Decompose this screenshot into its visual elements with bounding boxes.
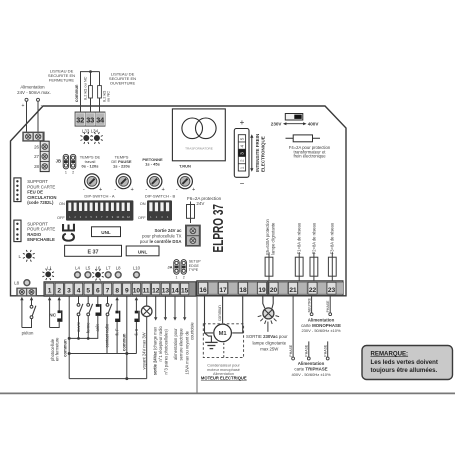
svg-text:27: 27	[34, 154, 39, 159]
LED L33	[80, 132, 92, 144]
wire NC bottom	[50, 322, 60, 328]
svg-text:commun: commun	[74, 84, 79, 102]
junction dots terminal 3	[68, 337, 71, 355]
label support feu de circulation	[27, 179, 56, 205]
svg-text:UNL: UNL	[138, 249, 148, 254]
svg-text:arêt: arêt	[95, 324, 100, 332]
label condensateur moteur	[201, 363, 247, 380]
svg-text:3: 3	[240, 152, 245, 155]
label 15VA max courtoisie	[184, 322, 194, 375]
svg-text:MOTEUR ELECTRIQUE: MOTEUR ELECTRIQUE	[201, 376, 247, 381]
DIP switch B	[138, 194, 176, 221]
svg-text:8,2 kΩ ou NC: 8,2 kΩ ou NC	[83, 76, 88, 100]
label listeau de securite en ouverture	[109, 71, 136, 85]
svg-text:ferme: ferme	[86, 322, 91, 333]
svg-text:13: 13	[162, 288, 170, 295]
label F4	[289, 145, 331, 159]
svg-text:L8: L8	[14, 281, 19, 286]
svg-text:8: 8	[115, 288, 119, 295]
wire 24V -	[37, 101, 39, 131]
svg-text:OFF: OFF	[57, 215, 65, 220]
connector support feu de circulation	[14, 178, 21, 202]
svg-text:lampe clignotante: lampe clignotante	[252, 340, 286, 345]
wire pieton bottom	[22, 319, 32, 328]
labels 26 27 28	[34, 144, 39, 169]
LED L2	[18, 250, 34, 262]
svg-text:(code 7282L): (code 7282L)	[27, 200, 54, 205]
terminal block alimentation 24V	[22, 132, 44, 142]
svg-text:Alimentation: Alimentation	[20, 84, 45, 89]
svg-text:9: 9	[125, 288, 129, 295]
svg-text:frein électronique: frein électronique	[293, 154, 326, 159]
svg-text:11: 11	[143, 288, 150, 295]
svg-text:Sortie 24V ac: Sortie 24V ac	[155, 228, 183, 233]
svg-text:1: 1	[48, 288, 52, 295]
transformer	[172, 109, 225, 161]
svg-text:ELPRO 37: ELPRO 37	[211, 204, 227, 253]
svg-text:n°1 récepteur radio: n°1 récepteur radio	[158, 326, 163, 362]
label F5	[265, 218, 276, 254]
svg-text:F1=8A de réseau: F1=8A de réseau	[297, 223, 302, 254]
svg-text:DIP-SWITCH - A: DIP-SWITCH - A	[84, 194, 114, 199]
svg-text:-: -	[145, 187, 147, 193]
svg-text:L4: L4	[75, 265, 80, 270]
svg-text:ou NC: ou NC	[106, 91, 111, 102]
svg-text:Alimentation: Alimentation	[298, 361, 325, 366]
svg-text:REMARQUE:: REMARQUE:	[371, 350, 409, 357]
fuse F2 8A	[310, 252, 318, 281]
svg-text:OFF: OFF	[138, 215, 146, 220]
wire terminal 9 commun	[126, 296, 128, 378]
svg-text:TRASFORMATORE: TRASFORMATORE	[185, 147, 213, 151]
svg-text:voyant 24V max 3W: voyant 24V max 3W	[142, 332, 147, 369]
label sortie 24Vac	[153, 326, 169, 376]
svg-text:max 25W: max 25W	[260, 347, 279, 352]
svg-text:lampe clignotante: lampe clignotante	[271, 222, 276, 255]
svg-text:Alimentation: Alimentation	[308, 318, 335, 323]
svg-text:NC: NC	[49, 313, 57, 319]
svg-text:10: 10	[133, 288, 141, 295]
label sortie 230Vac	[246, 334, 288, 351]
svg-text:14: 14	[171, 288, 179, 295]
wire terminal 20	[272, 296, 273, 308]
svg-text:28: 28	[34, 164, 39, 169]
label alimentation triphase	[291, 361, 331, 377]
svg-text:3: 3	[67, 288, 71, 295]
wire terminal 13	[164, 296, 166, 317]
wire terminal 21 phase	[292, 296, 295, 360]
svg-text:Les leds vertes doivent: Les leds vertes doivent	[371, 359, 438, 366]
node + terminal	[22, 98, 28, 109]
fuse F1 8A	[295, 252, 303, 281]
switch contact radio (terminal 7)	[107, 296, 109, 303]
svg-text:NEUTRE: NEUTRE	[307, 297, 311, 312]
svg-text:15VA max ou voyant de: 15VA max ou voyant de	[184, 330, 189, 374]
svg-text:TYPE: TYPE	[189, 268, 199, 272]
wire terminal 12 sortie 24Vac	[155, 296, 157, 317]
fuse F4 2A	[286, 135, 321, 142]
svg-text:fi. 0: fi. 0	[134, 328, 139, 335]
svg-text:commun: commun	[62, 339, 67, 357]
svg-text:24V - 50mA max.: 24V - 50mA max.	[17, 90, 51, 95]
switch ferme (terminal 5)	[87, 296, 89, 303]
svg-text:4: 4	[240, 144, 245, 147]
contact NC photocellule	[57, 310, 62, 321]
svg-text:pour photocellule TX: pour photocellule TX	[142, 234, 181, 239]
svg-text:SORTIE 230Vac pour: SORTIE 230Vac pour	[246, 334, 288, 339]
svg-text:PHASE: PHASE	[289, 344, 293, 357]
junction dot	[89, 70, 92, 73]
svg-text:26: 26	[34, 144, 39, 149]
bottom rule	[0, 392, 455, 394]
svg-text:L8: L8	[116, 265, 121, 270]
svg-text:serrure électrique: serrure électrique	[179, 328, 184, 361]
connector intensite frein electronique	[234, 129, 249, 178]
svg-text:19: 19	[258, 287, 266, 294]
svg-text:+: +	[22, 103, 25, 109]
svg-text:5: 5	[86, 288, 90, 295]
wire terminal 23 phase	[329, 296, 332, 316]
wire terminal 14 serrure	[174, 296, 176, 317]
svg-text:16: 16	[199, 287, 207, 294]
wire terminal 2	[58, 297, 61, 300]
wire bus radio/fi	[69, 353, 136, 355]
svg-text:23: 23	[328, 287, 336, 294]
svg-text:L7: L7	[106, 265, 111, 270]
remarque box	[362, 346, 453, 380]
motor M1	[214, 324, 232, 342]
fuse F3 8A	[328, 252, 336, 281]
potentiometer pietonne	[142, 157, 163, 167]
LED row L4-L10	[75, 265, 141, 280]
svg-text:F2=8A de réseau: F2=8A de réseau	[311, 223, 316, 254]
dashed condenser box	[203, 324, 243, 358]
connector support radio enfichable	[14, 220, 21, 242]
svg-text:sortie 24Vac (charge max: sortie 24Vac (charge max	[153, 326, 158, 375]
wire terminal 15 courtoisie	[184, 296, 186, 317]
svg-text:alimentation pour: alimentation pour	[173, 328, 178, 360]
svg-text:PHASE: PHASE	[324, 344, 328, 357]
svg-text:230V: 230V	[271, 121, 283, 126]
wire bus ouvre/ferme/arret	[69, 337, 98, 339]
svg-text:n°3 paires photocellules): n°3 paires photocellules)	[164, 328, 169, 374]
svg-text:UNL: UNL	[101, 230, 111, 235]
svg-text:PHASE: PHASE	[326, 300, 330, 313]
svg-text:INTENSITE FREIN: INTENSITE FREIN	[255, 134, 260, 172]
svg-text:230V - 50/60Hz ±10%: 230V - 50/60Hz ±10%	[301, 328, 341, 333]
label support radio enfichable	[27, 221, 55, 242]
svg-text:CE: CE	[59, 223, 79, 242]
svg-text:400V - 50/60Hz ±10%: 400V - 50/60Hz ±10%	[291, 372, 331, 377]
svg-text:OUVERTURE: OUVERTURE	[110, 80, 136, 85]
wire terminal 18 to motor	[232, 296, 243, 333]
ground	[205, 333, 218, 349]
svg-text:en fermeture: en fermeture	[54, 337, 59, 361]
svg-text:24V: 24V	[196, 201, 204, 206]
DIP switch A	[57, 194, 133, 221]
label intensite frein electronique	[255, 134, 266, 172]
svg-text:5: 5	[240, 137, 245, 140]
board outline ELPRO 37 PCB	[11, 106, 347, 296]
svg-text:-: -	[83, 187, 85, 193]
svg-text:1s - 220s: 1s - 220s	[113, 164, 131, 169]
wire terminal 19	[263, 296, 265, 308]
svg-text:+: +	[240, 118, 245, 127]
svg-text:12: 12	[152, 288, 160, 295]
dashed capacitor wire	[223, 343, 225, 358]
svg-text:34: 34	[96, 115, 104, 124]
svg-text:piéton: piéton	[22, 330, 34, 335]
box UNL 2	[126, 246, 159, 256]
svg-text:2: 2	[72, 171, 74, 175]
box E 37	[65, 245, 122, 256]
svg-text:−: −	[240, 179, 245, 188]
wire pieton left	[20, 297, 23, 300]
svg-text:E 37: E 37	[87, 249, 98, 255]
potentiometer temps de pause	[111, 155, 131, 169]
fuse F6 2A	[187, 196, 222, 223]
LED L34	[91, 132, 103, 144]
svg-text:22: 22	[309, 287, 317, 294]
wire terminal 1	[48, 297, 51, 300]
fuse F5 630mA	[265, 252, 273, 281]
svg-text:1: 1	[65, 171, 67, 175]
contact fi.F (terminal 8)	[115, 297, 118, 300]
lamp voyant (terminal 11)	[146, 296, 148, 306]
svg-text:L10: L10	[133, 265, 141, 270]
switch 230V/400V	[285, 114, 303, 121]
wire terminal 16 to motor	[205, 296, 214, 333]
svg-text:L5: L5	[86, 265, 91, 270]
terminal block 32 33 34	[75, 112, 106, 127]
label Alimentation 24V	[17, 84, 51, 95]
svg-text:7: 7	[106, 288, 110, 295]
label photocellule en fermeture	[50, 337, 60, 361]
label alimentation monophase	[301, 318, 341, 334]
node - terminal	[37, 98, 43, 109]
svg-text:JB: JB	[56, 159, 61, 164]
LED L1	[42, 265, 54, 280]
svg-text:toujours être allumées.: toujours être allumées.	[371, 367, 438, 374]
terminal block sortie 24V ac	[185, 225, 201, 247]
wire bus commun bottom	[69, 378, 147, 380]
lamp clignotante	[258, 308, 279, 332]
svg-text:PHASE: PHASE	[305, 344, 309, 357]
svg-text:ouvre: ouvre	[76, 321, 81, 332]
svg-text:L: L	[18, 254, 21, 259]
terminal strip 1-15	[44, 282, 196, 296]
terminal strip 16-23	[197, 281, 344, 296]
jumper JB	[56, 154, 76, 174]
wire commun to terminal 32	[81, 72, 100, 112]
svg-text:+: +	[192, 187, 195, 193]
svg-text:2: 2	[240, 159, 245, 162]
switch ouvre (terminal 4)	[78, 296, 80, 303]
svg-text:ENFICHABLE: ENFICHABLE	[27, 237, 55, 242]
svg-text:courtoisie: courtoisie	[190, 322, 195, 340]
svg-text:M1: M1	[219, 331, 228, 337]
potentiometer temps de travail	[80, 155, 101, 169]
svg-text:F5=630A protection: F5=630A protection	[265, 218, 270, 254]
wire pieton right	[30, 297, 33, 300]
svg-text:33: 33	[86, 115, 94, 124]
svg-text:DIP-SWITCH - B: DIP-SWITCH - B	[145, 194, 176, 199]
contact arret (terminal 6)	[97, 296, 99, 304]
svg-text:1: 1	[240, 166, 245, 169]
svg-text:T.RUN: T.RUN	[179, 164, 191, 169]
svg-text:2: 2	[183, 275, 185, 279]
svg-text:32: 32	[76, 115, 84, 124]
resistor 8.2k fermeture	[89, 72, 93, 112]
svg-text:0s - 120s: 0s - 120s	[82, 164, 100, 169]
svg-text:contact radio: contact radio	[104, 323, 109, 347]
svg-text:17: 17	[219, 287, 227, 294]
svg-text:ELECTRONIQUE: ELECTRONIQUE	[261, 136, 266, 172]
arrow intensite	[250, 134, 253, 171]
svg-text:21: 21	[289, 287, 297, 294]
svg-text:F3=8A de réseau: F3=8A de réseau	[330, 223, 335, 254]
junction dot bus3	[125, 377, 128, 380]
box UNL 1	[92, 227, 121, 237]
wire terminal 22 neutre	[310, 296, 313, 316]
svg-text:20: 20	[270, 287, 278, 294]
resistor 8.2k ouverture	[98, 72, 102, 112]
label sortie 24V ac	[140, 228, 182, 244]
svg-text:400V: 400V	[308, 121, 320, 126]
svg-text:fi. F: fi. F	[115, 328, 120, 335]
switch pieton	[30, 305, 36, 318]
svg-text:commun: commun	[217, 305, 222, 321]
svg-text:15: 15	[181, 288, 189, 295]
junction dots bus1	[77, 337, 90, 340]
svg-text:+: +	[130, 187, 133, 193]
svg-text:ON: ON	[59, 201, 65, 206]
svg-text:-: -	[176, 187, 178, 193]
wire triphase 3	[326, 341, 329, 360]
svg-text:+: +	[161, 187, 164, 193]
svg-text:FERMETURE: FERMETURE	[49, 77, 74, 82]
label 230V 400V	[271, 121, 320, 126]
wire terminal 17 to motor	[222, 296, 224, 324]
svg-text:2: 2	[57, 288, 61, 295]
svg-text:commun: commun	[122, 333, 127, 351]
label alimentation serrure	[173, 328, 184, 361]
svg-text:-: -	[114, 187, 116, 193]
svg-text:18: 18	[239, 287, 247, 294]
svg-text:JA: JA	[167, 265, 172, 270]
label listeau de securite en fermeture	[48, 68, 75, 82]
svg-text:6: 6	[96, 288, 100, 295]
wire triphase 2	[307, 341, 310, 360]
svg-text:1: 1	[176, 275, 178, 279]
LED L8 left	[14, 280, 30, 286]
section divider line	[196, 296, 198, 393]
wire 24V +	[26, 101, 28, 131]
terminal block pieton (left 2-screw)	[16, 288, 37, 297]
wire terminal 3 commun	[68, 296, 70, 378]
svg-text:1s - 45s: 1s - 45s	[145, 161, 160, 166]
svg-text:4: 4	[77, 288, 81, 295]
terminal column 26 27 28	[40, 141, 49, 171]
svg-text:Condensateur pour: Condensateur pour	[207, 363, 240, 367]
label 8,2 kOhm ou NC (2)	[101, 91, 110, 102]
junction dot bus2	[125, 352, 128, 355]
jumper JA setup edge type	[167, 260, 201, 280]
svg-text:+: +	[99, 187, 102, 193]
svg-text:ON: ON	[140, 201, 146, 206]
contact fi.0 (terminal 10)	[135, 297, 138, 300]
svg-text:pour le contrôle DSA: pour le contrôle DSA	[140, 239, 182, 244]
